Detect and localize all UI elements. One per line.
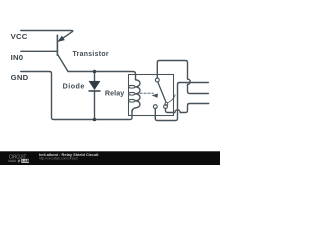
diode D1 triangle bbox=[89, 81, 100, 90]
svg-text:LAB: LAB bbox=[22, 159, 30, 163]
footer logo bolt bbox=[18, 159, 21, 164]
relay coil crossing loops bbox=[129, 85, 136, 88]
footer logo lines bbox=[8, 160, 16, 162]
transistor emitter arrowhead bbox=[58, 36, 64, 41]
armature tip loop bbox=[165, 103, 168, 106]
relay box bbox=[129, 75, 174, 116]
diode D1 vertical leads bbox=[94, 72, 96, 120]
node junction dot bottom bbox=[93, 118, 97, 122]
svg-text:GND: GND bbox=[11, 73, 29, 82]
armature swing arc bbox=[168, 95, 176, 103]
relay NO contact circle bbox=[164, 105, 168, 109]
transistor collector wire to top rail bbox=[58, 55, 136, 80]
svg-text:IN0: IN0 bbox=[11, 53, 24, 62]
mechanical dashed link bbox=[140, 92, 154, 94]
footer logo LAB box bbox=[21, 159, 29, 163]
relay NC contact circle bbox=[153, 105, 157, 109]
wire IN0 to transistor base bbox=[21, 50, 58, 52]
relay armature bbox=[158, 82, 166, 102]
relay coil L1 bbox=[132, 80, 140, 112]
relay NO wire to right terminal with hop bbox=[166, 104, 209, 113]
transistor Q1 base bar bbox=[56, 35, 58, 55]
diode D1 cathode bar bbox=[89, 90, 101, 92]
svg-text:Transistor: Transistor bbox=[73, 51, 109, 58]
footer bar bbox=[0, 151, 220, 165]
svg-text:http://circuitlab.com/c49q2t: http://circuitlab.com/c49q2t bbox=[39, 157, 78, 161]
wire VCC to transistor emitter bbox=[21, 31, 73, 41]
relay common stem bbox=[157, 61, 208, 94]
mechanical link arrowhead bbox=[152, 94, 158, 98]
svg-text:Relay: Relay bbox=[105, 89, 124, 97]
relay common contact circle bbox=[155, 78, 159, 82]
node junction dot top bbox=[93, 70, 97, 74]
wire GND down and bottom rail bbox=[21, 72, 132, 120]
svg-text:VCC: VCC bbox=[11, 32, 28, 41]
relay NC wire to right terminal bbox=[155, 83, 208, 121]
svg-text:Diode: Diode bbox=[63, 83, 85, 91]
